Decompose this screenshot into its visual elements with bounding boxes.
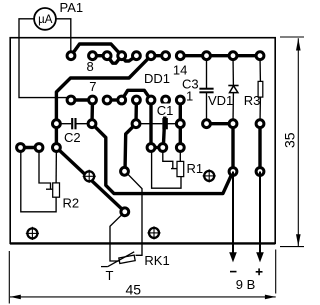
wire trace plus column	[258, 124, 261, 172]
wire trace pin7 down to C2 right	[90, 100, 94, 124]
pad DD1 pin 9	[103, 52, 111, 60]
svg-text:R2: R2	[63, 196, 80, 211]
capacitor C1 plates	[163, 118, 166, 129]
pad RK1 upper	[121, 167, 129, 175]
pad DD1 pin 10	[118, 52, 126, 60]
resistor R1 wiper lead	[163, 148, 173, 169]
pad R2 top / net B	[53, 144, 61, 152]
resistor R3 leads	[259, 56, 261, 82]
wire trace pin2 down	[163, 100, 165, 148]
dimension 35 extension lines	[280, 37, 304, 247]
pad DD1 pin 14	[176, 52, 184, 60]
pad R1 bottom lead	[147, 144, 155, 152]
svg-text:C1: C1	[157, 103, 174, 118]
wire trace pin12-pin13	[151, 54, 166, 57]
pad DD1 pin 7	[89, 96, 97, 104]
svg-text:µA: µA	[38, 14, 53, 26]
wire trace pin12 to C2 column (net B)	[56, 56, 151, 148]
diode VD1 leads	[232, 56, 234, 86]
meter PA1 circle	[34, 8, 56, 30]
svg-text:T: T	[106, 268, 114, 283]
wire trace pin3 down	[149, 100, 152, 148]
diode VD1 symbol	[228, 86, 238, 93]
label plus	[256, 268, 263, 275]
pad DD1 pin 8	[89, 52, 97, 60]
pad DD1 pin 5	[118, 96, 126, 104]
svg-text:C2: C2	[64, 130, 81, 145]
resistor R1 bottom loop lead	[152, 148, 181, 189]
wire trace minus column	[231, 124, 234, 172]
pad R3 top	[256, 52, 264, 60]
svg-text:VD1: VD1	[208, 93, 233, 108]
resistor R2 top lead	[55, 148, 57, 183]
wire trace V pin10-pin11	[122, 56, 137, 61]
pad R1 wiper	[159, 144, 167, 152]
board outline	[10, 38, 275, 244]
svg-text:R3: R3	[244, 93, 261, 108]
pad PA1 wire bottom	[67, 96, 75, 104]
resistor R1 top lead	[179, 148, 181, 162]
pad C1 right	[176, 120, 184, 128]
thermistor RK1 right lead	[125, 171, 142, 255]
label C1	[156, 104, 174, 117]
pad VD1 top	[229, 52, 237, 60]
resistor R3 body	[258, 81, 263, 97]
svg-text:45: 45	[126, 282, 142, 298]
resistor R2 wiper lead	[39, 148, 51, 190]
pad DD1 pin 1	[176, 96, 184, 104]
pad R1 top	[176, 144, 184, 152]
svg-text:35: 35	[282, 132, 298, 148]
pad C2 left	[53, 120, 61, 128]
capacitor C1 leads	[136, 123, 162, 125]
svg-text:14: 14	[173, 63, 187, 78]
mounting hole bottom-left	[26, 227, 39, 240]
pad RK1 lower	[121, 208, 129, 216]
output minus line	[232, 172, 234, 254]
capacitor C2 plates	[72, 118, 75, 129]
pad VD1 bottom	[229, 120, 237, 128]
svg-text:PA1: PA1	[60, 0, 84, 15]
svg-text:9 В: 9 В	[236, 277, 256, 292]
thermistor RK1 body	[119, 255, 135, 263]
wire trace C3-VD1 bottom bar	[207, 122, 234, 125]
svg-text:DD1: DD1	[144, 71, 170, 86]
wire jumper uA meter right lead	[54, 19, 71, 56]
svg-text:RK1: RK1	[144, 253, 169, 268]
wire trace pin4 down to C1 left	[134, 100, 138, 124]
dimension 45 extension lines	[9, 250, 275, 304]
wire trace pin8-pin9	[93, 54, 108, 57]
wire trace R2 pads bar	[21, 146, 40, 149]
resistor R1 body	[177, 161, 184, 176]
pad DD1 pin 2	[162, 96, 170, 104]
svg-text:7: 7	[89, 79, 96, 94]
pad DD1 pin 4	[133, 96, 141, 104]
pad R2 wiper	[35, 144, 43, 152]
wire jumper uA meter left lead	[19, 19, 71, 98]
wire trace uA pad to pin7	[71, 98, 93, 101]
dimension 45 arrows	[10, 295, 21, 300]
pad DD1 pin 13	[162, 52, 170, 60]
pad DD1 pin 12	[147, 52, 155, 60]
pad R3 bottom	[256, 120, 264, 128]
wire trace top rail pin14 to R3	[180, 54, 260, 57]
label minus	[230, 271, 237, 273]
output plus line	[259, 172, 261, 254]
dimension 35 arrows	[296, 38, 301, 50]
pad C1 left	[132, 120, 140, 128]
mounting hole bottom-middle	[147, 226, 160, 239]
svg-text:R1: R1	[187, 161, 204, 176]
wire trace R1 pads bar	[151, 146, 163, 149]
capacitor C2 leads	[56, 123, 71, 125]
resistor R2 bottom loop lead	[21, 148, 56, 212]
pad DD1 pin 6	[103, 96, 111, 104]
pad output plus	[256, 168, 264, 176]
wire trace C1 right down to R1 pad	[179, 124, 182, 148]
wire trace pad72 to pin10 (net A top)	[71, 44, 122, 56]
svg-text:C3: C3	[182, 77, 199, 92]
wire trace C1 left to pad RK1 top	[125, 124, 136, 172]
wire trace diagonal node B to RK1 pad	[56, 148, 124, 212]
svg-text:8: 8	[87, 59, 94, 74]
wire trace hump pin5-pin3	[122, 90, 151, 100]
mounting hole right	[203, 169, 216, 182]
wire trace bottom minus rail	[92, 124, 233, 194]
mounting hole top-left area	[83, 170, 96, 183]
wire trace pin1 down to C1 right	[179, 100, 182, 124]
pad C3 top	[203, 52, 211, 60]
pad DD1 pin 11	[133, 52, 141, 60]
pad output minus	[229, 168, 237, 176]
pad PA1 wire top	[67, 52, 75, 60]
resistor R2 body	[53, 183, 60, 197]
capacitor C3 leads	[206, 56, 208, 89]
wire trace V pin9-pin10	[107, 56, 122, 64]
wire trace pin6-pin5	[107, 98, 122, 101]
capacitor C3 plates	[199, 89, 213, 93]
thermistor RK1 left lead	[110, 212, 125, 261]
pad DD1 pin 3	[147, 96, 155, 104]
pad R2 bottom lead	[17, 144, 25, 152]
thermistor RK1 strike line	[101, 252, 134, 267]
pad C2 right	[88, 120, 96, 128]
pad C3 bottom	[203, 120, 211, 128]
